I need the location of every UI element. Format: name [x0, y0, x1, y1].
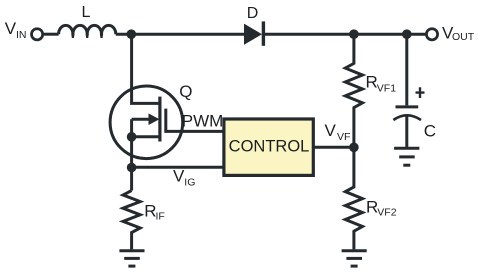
- svg-text:IN: IN: [16, 29, 27, 41]
- svg-text:PWM: PWM: [182, 111, 224, 130]
- svg-text:L: L: [82, 4, 91, 21]
- svg-text:V: V: [325, 121, 337, 140]
- svg-text:Q: Q: [179, 82, 192, 101]
- svg-text:OUT: OUT: [452, 31, 475, 43]
- svg-text:D: D: [247, 5, 259, 22]
- svg-text:V: V: [173, 166, 185, 185]
- svg-text:VF: VF: [337, 131, 350, 143]
- svg-text:CONTROL: CONTROL: [229, 138, 310, 156]
- svg-text:V: V: [5, 19, 17, 38]
- svg-text:IG: IG: [184, 177, 195, 189]
- svg-text:C: C: [424, 122, 436, 141]
- svg-text:IF: IF: [156, 211, 165, 223]
- svg-text:VF1: VF1: [377, 83, 396, 95]
- svg-text:VF2: VF2: [377, 207, 396, 219]
